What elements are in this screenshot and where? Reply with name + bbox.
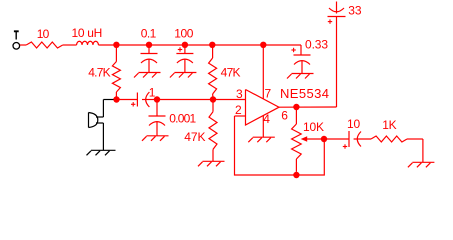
svg-text:4: 4	[263, 112, 270, 126]
svg-text:10: 10	[37, 27, 50, 41]
svg-text:0.1: 0.1	[141, 27, 157, 41]
svg-text:47K: 47K	[221, 66, 241, 80]
svg-text:10: 10	[347, 117, 360, 131]
svg-text:1K: 1K	[382, 118, 396, 132]
svg-text:0.33: 0.33	[305, 37, 328, 51]
svg-text:7: 7	[265, 86, 272, 100]
svg-text:NE5534: NE5534	[280, 86, 329, 101]
svg-text:10 uH: 10 uH	[72, 26, 103, 40]
svg-text:6: 6	[281, 108, 288, 122]
svg-text:100: 100	[174, 27, 194, 41]
svg-text:3: 3	[236, 87, 243, 101]
svg-text:47K: 47K	[184, 130, 205, 144]
svg-text:10K: 10K	[303, 120, 324, 134]
svg-text:0.001: 0.001	[169, 111, 196, 125]
svg-text:4.7K: 4.7K	[88, 66, 110, 80]
svg-text:2: 2	[235, 103, 242, 117]
svg-text:33: 33	[348, 3, 362, 17]
